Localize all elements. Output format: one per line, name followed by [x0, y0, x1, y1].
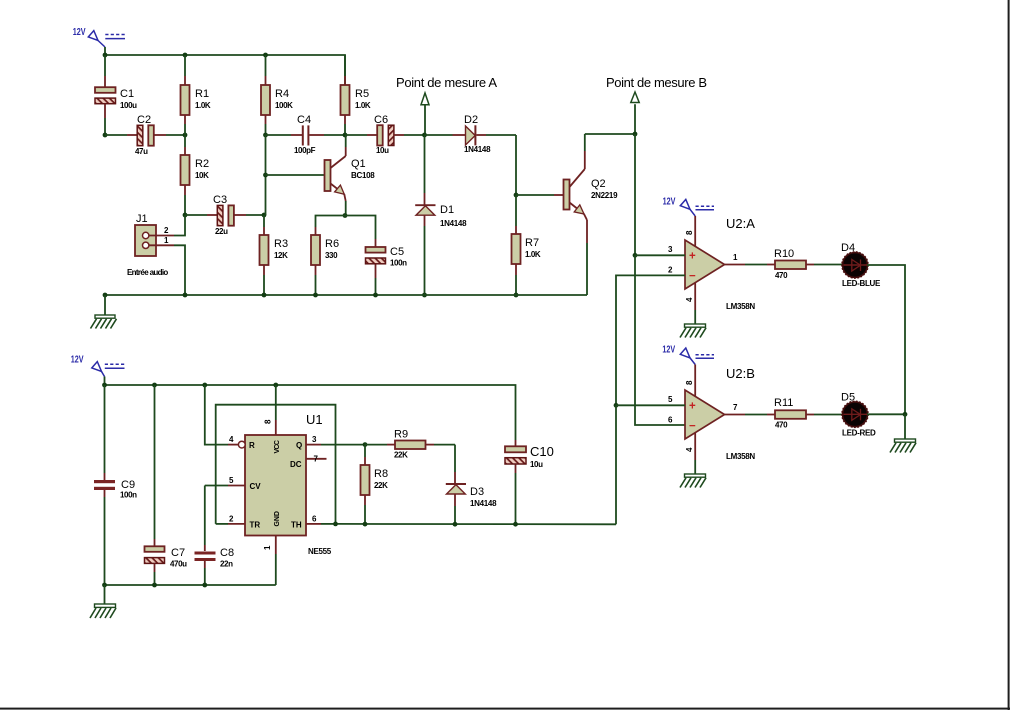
node A	[422, 133, 427, 138]
transistor Q1	[325, 135, 376, 216]
svg-text:10K: 10K	[195, 171, 209, 180]
wire C2 left	[105, 134, 127, 136]
ground bottom section	[90, 585, 116, 618]
wire base node to Q2	[516, 194, 554, 196]
node D3 bottom	[453, 522, 458, 527]
svg-text:Entrée audio: Entrée audio	[127, 268, 168, 277]
svg-text:1N4148: 1N4148	[440, 219, 467, 228]
svg-text:C1: C1	[120, 88, 134, 100]
svg-text:C10: C10	[530, 444, 554, 459]
node rail-C1	[103, 53, 108, 58]
svg-text:U2:B: U2:B	[726, 366, 755, 381]
svg-text:TR: TR	[250, 521, 261, 530]
node C5 bottom	[373, 293, 378, 298]
wire opamp A minus input feedback	[616, 275, 685, 405]
svg-text:2: 2	[164, 226, 169, 235]
svg-text:8: 8	[264, 419, 273, 424]
capacitor C8	[195, 486, 235, 586]
capacitor C10	[505, 440, 554, 524]
capacitor C5	[366, 239, 408, 295]
svg-text:1.0K: 1.0K	[355, 101, 371, 110]
svg-text:470u: 470u	[170, 560, 187, 569]
svg-text:4: 4	[229, 435, 234, 444]
node C3-R3	[262, 213, 267, 218]
resistor R10	[767, 248, 843, 280]
node R2-C3-J1	[183, 213, 188, 218]
resistor R11	[767, 397, 843, 430]
svg-text:4: 4	[685, 297, 694, 302]
svg-text:1: 1	[164, 236, 169, 245]
svg-text:U2:A: U2:A	[726, 216, 755, 231]
svg-text:12K: 12K	[274, 251, 288, 260]
wire opamp B plus input	[616, 404, 685, 406]
power 12V top	[73, 27, 125, 47]
svg-text:C4: C4	[297, 114, 311, 126]
svg-text:Q2: Q2	[591, 178, 606, 190]
wire C1 top	[104, 55, 106, 76]
svg-text:8: 8	[685, 230, 694, 235]
wire node B down to opamp A	[634, 134, 636, 255]
svg-text:22u: 22u	[215, 227, 228, 236]
ground opamp A	[680, 324, 706, 338]
svg-text:D4: D4	[841, 242, 855, 254]
wire D4 to corner	[867, 265, 905, 414]
resistor R6	[311, 227, 339, 295]
ground opamp B	[680, 474, 706, 488]
svg-text:7: 7	[314, 455, 319, 464]
wire base to Q1	[266, 174, 325, 176]
svg-text:D3: D3	[470, 486, 484, 498]
wire C1 bottom	[104, 118, 106, 135]
svg-text:DC: DC	[290, 460, 302, 469]
LED D4	[841, 242, 881, 288]
transistor Q2	[554, 134, 618, 295]
node rail-C7	[152, 383, 157, 388]
svg-text:LED-BLUE: LED-BLUE	[842, 279, 881, 288]
node TR tie	[333, 522, 338, 527]
wire power to rail	[104, 47, 106, 55]
node gnd-C9	[102, 583, 107, 588]
wire power to bottom rail	[104, 377, 106, 386]
svg-text:GND: GND	[274, 511, 281, 527]
wire emitter node right to C5	[345, 216, 376, 240]
svg-text:R11: R11	[774, 397, 793, 409]
svg-text:Point de mesure B: Point de mesure B	[606, 75, 707, 90]
node R6 bottom	[313, 293, 318, 298]
svg-text:Q: Q	[296, 441, 302, 450]
svg-text:6: 6	[668, 416, 673, 425]
node opamp A plus	[633, 253, 638, 258]
node R7 bottom	[514, 293, 519, 298]
svg-text:1N4148: 1N4148	[470, 499, 497, 508]
frame border bottom	[0, 708, 1010, 710]
IC U1 NE555	[205, 385, 365, 585]
svg-text:R3: R3	[274, 238, 288, 250]
resistor R9	[365, 429, 455, 460]
svg-text:1: 1	[263, 545, 272, 550]
wire C6 to node A	[404, 134, 425, 136]
svg-text:470: 470	[775, 421, 788, 430]
wire C2 right	[166, 134, 185, 136]
ground LEDs	[890, 414, 916, 452]
svg-text:D2: D2	[464, 114, 478, 126]
svg-text:3: 3	[312, 435, 317, 444]
svg-text:12V: 12V	[71, 355, 84, 366]
capacitor C6	[345, 114, 404, 155]
svg-text:D1: D1	[440, 204, 454, 216]
node rail-C9	[102, 383, 107, 388]
svg-text:R10: R10	[774, 248, 794, 260]
wire node down to TH rail	[615, 405, 617, 524]
resistor R5	[341, 55, 371, 135]
power 12V opamp B	[662, 345, 714, 365]
node gnd-C7	[152, 583, 157, 588]
node D1 bottom	[422, 293, 427, 298]
svg-text:R1: R1	[195, 88, 209, 100]
svg-text:12V: 12V	[662, 345, 675, 356]
svg-text:NE555: NE555	[308, 547, 332, 556]
svg-text:1N4148: 1N4148	[464, 145, 491, 154]
svg-text:22K: 22K	[394, 451, 408, 460]
svg-text:8: 8	[685, 380, 694, 385]
svg-text:Point de mesure A: Point de mesure A	[396, 75, 497, 90]
svg-text:2N2219: 2N2219	[591, 191, 618, 200]
svg-text:47u: 47u	[135, 147, 148, 156]
svg-text:10u: 10u	[530, 460, 543, 469]
svg-text:C2: C2	[137, 114, 151, 126]
wire TH rail	[336, 523, 617, 525]
wire TR tie line	[216, 405, 336, 524]
svg-text:100pF: 100pF	[294, 146, 316, 155]
wire opamp B out to R11	[745, 414, 767, 416]
capacitor C3	[185, 194, 264, 236]
capacitor C4	[266, 114, 346, 155]
svg-text:22n: 22n	[220, 560, 233, 569]
node C1-C2	[103, 133, 108, 138]
node Q out R8 R9	[363, 442, 368, 447]
resistor R7	[512, 195, 541, 295]
svg-text:330: 330	[325, 251, 338, 260]
node R1-R2	[183, 133, 188, 138]
node rail-VCC	[273, 383, 278, 388]
capacitor C7	[145, 385, 188, 585]
svg-text:TH: TH	[291, 521, 302, 530]
svg-text:R4: R4	[275, 88, 289, 100]
resistor R1	[181, 55, 211, 135]
svg-text:7: 7	[733, 403, 738, 412]
measure point A	[396, 75, 497, 135]
svg-text:−: −	[689, 420, 696, 432]
svg-text:D5: D5	[841, 392, 855, 404]
svg-text:R8: R8	[374, 468, 388, 480]
svg-text:R6: R6	[325, 238, 339, 250]
svg-text:C6: C6	[374, 114, 388, 126]
node rail-R4	[263, 53, 268, 58]
resistor R2	[181, 135, 210, 215]
svg-text:LM358N: LM358N	[726, 452, 755, 461]
svg-text:R: R	[249, 441, 255, 450]
capacitor C1	[95, 76, 137, 118]
svg-text:5: 5	[229, 476, 234, 485]
svg-text:VCC: VCC	[274, 440, 281, 454]
wire opamp A out to R10	[745, 264, 767, 266]
node rail-R1	[183, 53, 188, 58]
svg-text:C8: C8	[220, 547, 234, 559]
svg-text:22K: 22K	[374, 481, 388, 490]
resistor R4	[261, 55, 293, 135]
svg-text:Q1: Q1	[351, 158, 366, 170]
node J1 pin1 rail	[183, 293, 188, 298]
frame border right	[1008, 0, 1010, 710]
node base tap	[263, 173, 268, 178]
wire emitter node left to R6	[316, 216, 346, 228]
node D4-D5-ground	[903, 412, 908, 417]
wire top rail	[105, 55, 345, 85]
svg-text:R7: R7	[525, 237, 539, 249]
diode D1	[415, 135, 467, 295]
wire R4 node down to base node	[265, 135, 267, 215]
wire ground rail bottom section	[105, 584, 276, 586]
svg-text:+: +	[689, 251, 696, 263]
svg-text:1.0K: 1.0K	[195, 101, 211, 110]
svg-text:R2: R2	[195, 158, 209, 170]
svg-text:2: 2	[668, 266, 673, 275]
node rail-ground	[103, 293, 108, 298]
node B collector	[633, 132, 638, 137]
svg-text:CV: CV	[250, 482, 262, 491]
svg-text:12V: 12V	[663, 196, 676, 207]
svg-text:100n: 100n	[120, 491, 137, 500]
svg-text:470: 470	[775, 271, 788, 280]
node R4-C4	[263, 133, 268, 138]
power 12V bottom	[71, 355, 125, 377]
wire J1 pin1 to ground rail	[174, 245, 185, 295]
LED D5	[841, 392, 876, 438]
svg-text:C3: C3	[213, 194, 227, 206]
wire Q2 collector to node B line	[585, 133, 635, 135]
svg-text:BC108: BC108	[351, 171, 375, 180]
svg-text:R9: R9	[394, 429, 408, 441]
diode D2	[425, 114, 517, 154]
svg-text:12V: 12V	[73, 27, 86, 38]
measure point B	[606, 75, 707, 134]
svg-text:R5: R5	[355, 88, 369, 100]
wire D2 corner down to Q2 base node	[515, 135, 517, 195]
svg-text:3: 3	[668, 245, 673, 254]
connector J1	[127, 213, 174, 277]
node R8 bottom	[363, 522, 368, 527]
node R5-C6-Q1	[343, 133, 348, 138]
resistor R3	[260, 215, 289, 295]
svg-text:J1: J1	[136, 213, 148, 225]
wire D5 to node	[867, 413, 905, 415]
wire node B down to opamp B minus	[635, 255, 685, 425]
svg-text:C9: C9	[121, 479, 135, 491]
svg-text:LED-RED: LED-RED	[842, 429, 876, 438]
svg-text:4: 4	[685, 447, 694, 452]
svg-text:2: 2	[229, 515, 234, 524]
svg-text:C5: C5	[390, 246, 404, 258]
svg-text:1: 1	[733, 253, 738, 262]
svg-text:U1: U1	[306, 412, 323, 427]
wire opamp A plus input	[635, 254, 685, 256]
svg-text:100K: 100K	[275, 101, 293, 110]
op-amp U2:B	[668, 365, 755, 475]
node R3 bottom	[262, 293, 267, 298]
op-amp U2:A	[668, 216, 755, 324]
svg-text:C7: C7	[171, 547, 185, 559]
svg-text:1.0K: 1.0K	[525, 250, 541, 259]
svg-text:100u: 100u	[120, 101, 137, 110]
svg-text:LM358N: LM358N	[726, 302, 755, 311]
capacitor C9	[94, 385, 137, 585]
node opamp B plus	[614, 403, 619, 408]
node rail-pin4	[202, 383, 207, 388]
wire pin4 from rail	[205, 385, 228, 445]
diode D3	[446, 445, 497, 525]
svg-text:6: 6	[312, 515, 317, 524]
svg-text:−: −	[689, 271, 696, 283]
wire 12V rail bottom section	[105, 385, 516, 440]
node Q1 emitter	[343, 213, 348, 218]
svg-text:10u: 10u	[376, 146, 389, 155]
node gnd-C8	[202, 583, 207, 588]
power 12V opamp A	[663, 196, 714, 216]
node C10 bottom	[513, 522, 518, 527]
capacitor C2	[127, 114, 166, 156]
ground top section	[91, 295, 117, 329]
svg-text:+: +	[689, 400, 696, 412]
node Q2 base-R7	[514, 193, 519, 198]
resistor R8	[361, 445, 389, 525]
wire ground rail top section	[105, 294, 587, 296]
wire J1 pin2 to node	[174, 215, 185, 236]
svg-text:5: 5	[668, 395, 673, 404]
svg-text:100n: 100n	[390, 259, 407, 268]
